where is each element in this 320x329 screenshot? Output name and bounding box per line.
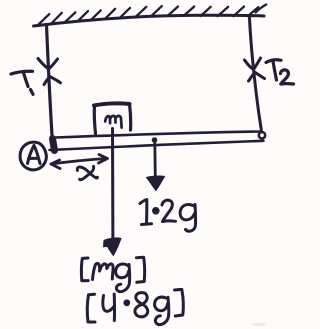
- rod bottom edge: [50, 141, 264, 150]
- load point dot on rod: [152, 137, 158, 143]
- X cut mark on T1: [38, 59, 61, 85]
- point A circle: [20, 142, 46, 170]
- label 1.2g: [140, 200, 196, 232]
- label T2: [266, 60, 294, 84]
- block m: [94, 103, 131, 133]
- label x: [77, 166, 97, 180]
- string T1 wire: [47, 26, 53, 144]
- ceiling line: [34, 15, 265, 26]
- label m in block: [105, 116, 121, 128]
- rod right end pin: [259, 132, 265, 138]
- weight arrow 1.2g head: [147, 176, 165, 191]
- string T2 wire: [250, 18, 262, 131]
- ceiling hatching: [39, 5, 267, 25]
- rod top edge: [55, 132, 261, 138]
- weight arrow mg head: [104, 238, 121, 256]
- faint smudge: [251, 323, 267, 326]
- weight arrow mg shaft: [111, 129, 114, 241]
- label T1: [11, 71, 33, 94]
- label A: [28, 146, 41, 164]
- label [mg]: [81, 257, 144, 291]
- weight arrow 1.2g shaft: [153, 141, 156, 178]
- junction blob left (string to rod): [53, 139, 55, 151]
- X cut mark on T2: [245, 58, 265, 81]
- x-span arrow: [51, 155, 108, 169]
- label [4.8g]: [87, 289, 183, 324]
